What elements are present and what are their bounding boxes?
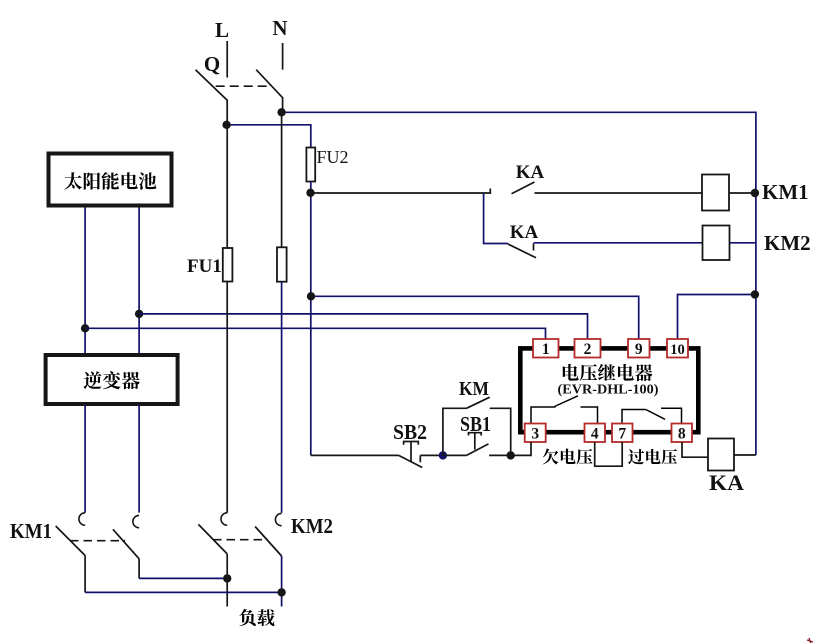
svg-text:8: 8 [678,426,686,443]
svg-text:7: 7 [618,426,626,443]
coil KA [708,439,734,471]
terminal 7 [612,424,633,443]
svg-text:KA: KA [709,470,744,495]
wire FU2 branch to SB2 [311,454,399,456]
svg-text:1: 1 [542,341,550,358]
wire relay terminal 10 to rail [678,295,755,340]
wire terminal 8 to coil KA [682,442,708,457]
contactor KM1 linkage dashed [70,540,125,542]
junction on line 1 [81,324,89,332]
terminal 8 [672,424,693,443]
junction on N line bottom [277,588,285,596]
wire below FU2 down to control branch [310,182,312,456]
wire L feeder [226,125,228,248]
wire to relay terminal 2 [139,314,587,339]
fuse FU1 (L) [223,248,233,282]
wire solar battery output 2 [138,208,140,354]
wire N incoming stub [282,43,284,70]
contact KM (NO) parallel branch [443,408,467,455]
terminal 10 [667,339,688,358]
junction on L line [222,121,230,129]
wire FU2 branch to relay terminal 9 [311,296,639,339]
svg-text:4: 4 [591,426,599,443]
coil KM2 [703,226,730,261]
wire SB2 to node [420,454,443,456]
contactor KM2 pole b [275,513,281,525]
wire from L junction to FU2 branch [227,125,311,148]
junction on N line [277,108,285,116]
fuse FU1 (N) [277,247,287,281]
relay contact KA (NO) blade [512,182,535,194]
wire inverter output 1 [84,405,86,513]
junction KM1/rail [751,189,759,197]
svg-text:2: 2 [584,341,592,358]
svg-text:KM2: KM2 [764,231,811,255]
wire to relay terminal 1 [85,328,545,339]
terminal 3 [525,424,546,443]
wire top rail from N junction to right side rail [282,112,756,455]
wire inverter output 2 [138,405,140,513]
svg-text:KA: KA [516,162,545,183]
relay contact KA (NC) blade [508,244,536,258]
svg-text:FU1: FU1 [187,256,222,277]
pushbutton SB1 actuator [469,433,482,436]
inverter box 逆变器 [46,355,178,404]
svg-text:(EVR-DHL-100): (EVR-DHL-100) [558,382,659,398]
junction T10/rail [751,290,759,298]
wire N feeder [281,112,283,247]
junction on line 2 [135,310,143,318]
svg-text:10: 10 [670,342,685,358]
contactor KM2 linkage dashed [213,539,268,541]
svg-text:9: 9 [635,341,643,358]
svg-text:KA: KA [510,222,539,243]
switch Q linkage dashed line [216,85,271,87]
voltage relay box EVR-DHL-100 [520,348,698,432]
jumper terminal 4 to 7 [595,442,623,466]
wire FU2 junction to KA contact [311,189,491,194]
label 过电压 [628,449,644,464]
junction below FU2 [306,189,314,197]
wire L feeder below fuse [226,282,228,513]
contactor KM2 pole a [221,513,227,525]
svg-text:KM: KM [459,378,489,400]
wire SB1 to node 2 [489,454,511,456]
wire KM1 pole b output to L line [139,577,227,579]
relay internal contact 3-4 [531,407,556,424]
relay internal contact 7-8 [622,410,646,424]
contactor KM1 pole b [133,515,139,527]
switch Q pole L blade [196,70,228,125]
red speck bottom right [807,638,813,643]
wire coil KM1 to rail [729,192,756,194]
svg-text:L: L [215,18,229,42]
junction node 2 [507,451,515,459]
wire N feeder below fuse [281,282,283,513]
svg-text:3: 3 [531,426,539,443]
terminal 1 [533,339,559,358]
terminal 4 [585,424,606,443]
wire KA contact to coil KM1 [535,192,703,194]
svg-text:SB2: SB2 [393,420,427,444]
pushbutton SB1 (NO) blade [467,444,489,456]
wire node to SB1 [443,454,467,456]
wire KM1 pole a output to N line [85,591,282,593]
relay title 电压继电器 [563,364,579,381]
junction on L line bottom [223,574,231,582]
svg-text:FU2: FU2 [317,147,349,167]
terminal 9 [628,339,650,358]
pushbutton SB2 actuator [404,442,419,445]
wire KA NC contact to coil KM2 [534,242,703,244]
wire coil KA to rail [734,454,756,456]
switch Q pole N blade [256,70,282,113]
label 欠电压 [543,448,559,464]
svg-text:KM1: KM1 [762,180,809,204]
load label 负载 [239,609,256,626]
junction FU2 branch [307,292,315,300]
wire L incoming stub [226,41,228,78]
terminal 2 [575,339,601,358]
svg-text:N: N [272,16,287,40]
coil KM1 [702,175,729,211]
wire branch to lower KA contact [484,193,508,244]
pushbutton SB2 (NC) blade [399,455,423,467]
wire coil KM2 to rail [730,242,756,244]
svg-text:KM2: KM2 [291,514,333,538]
contactor KM1 pole a [79,513,85,525]
svg-text:Q: Q [204,52,220,76]
fuse FU2 [306,148,315,182]
solar battery box 太阳能电池 [49,154,172,206]
wire node 2 to terminal 3 [511,442,531,455]
svg-text:KM1: KM1 [10,519,52,543]
wire solar battery output 1 [84,208,86,354]
junction node (navy) [439,451,447,459]
